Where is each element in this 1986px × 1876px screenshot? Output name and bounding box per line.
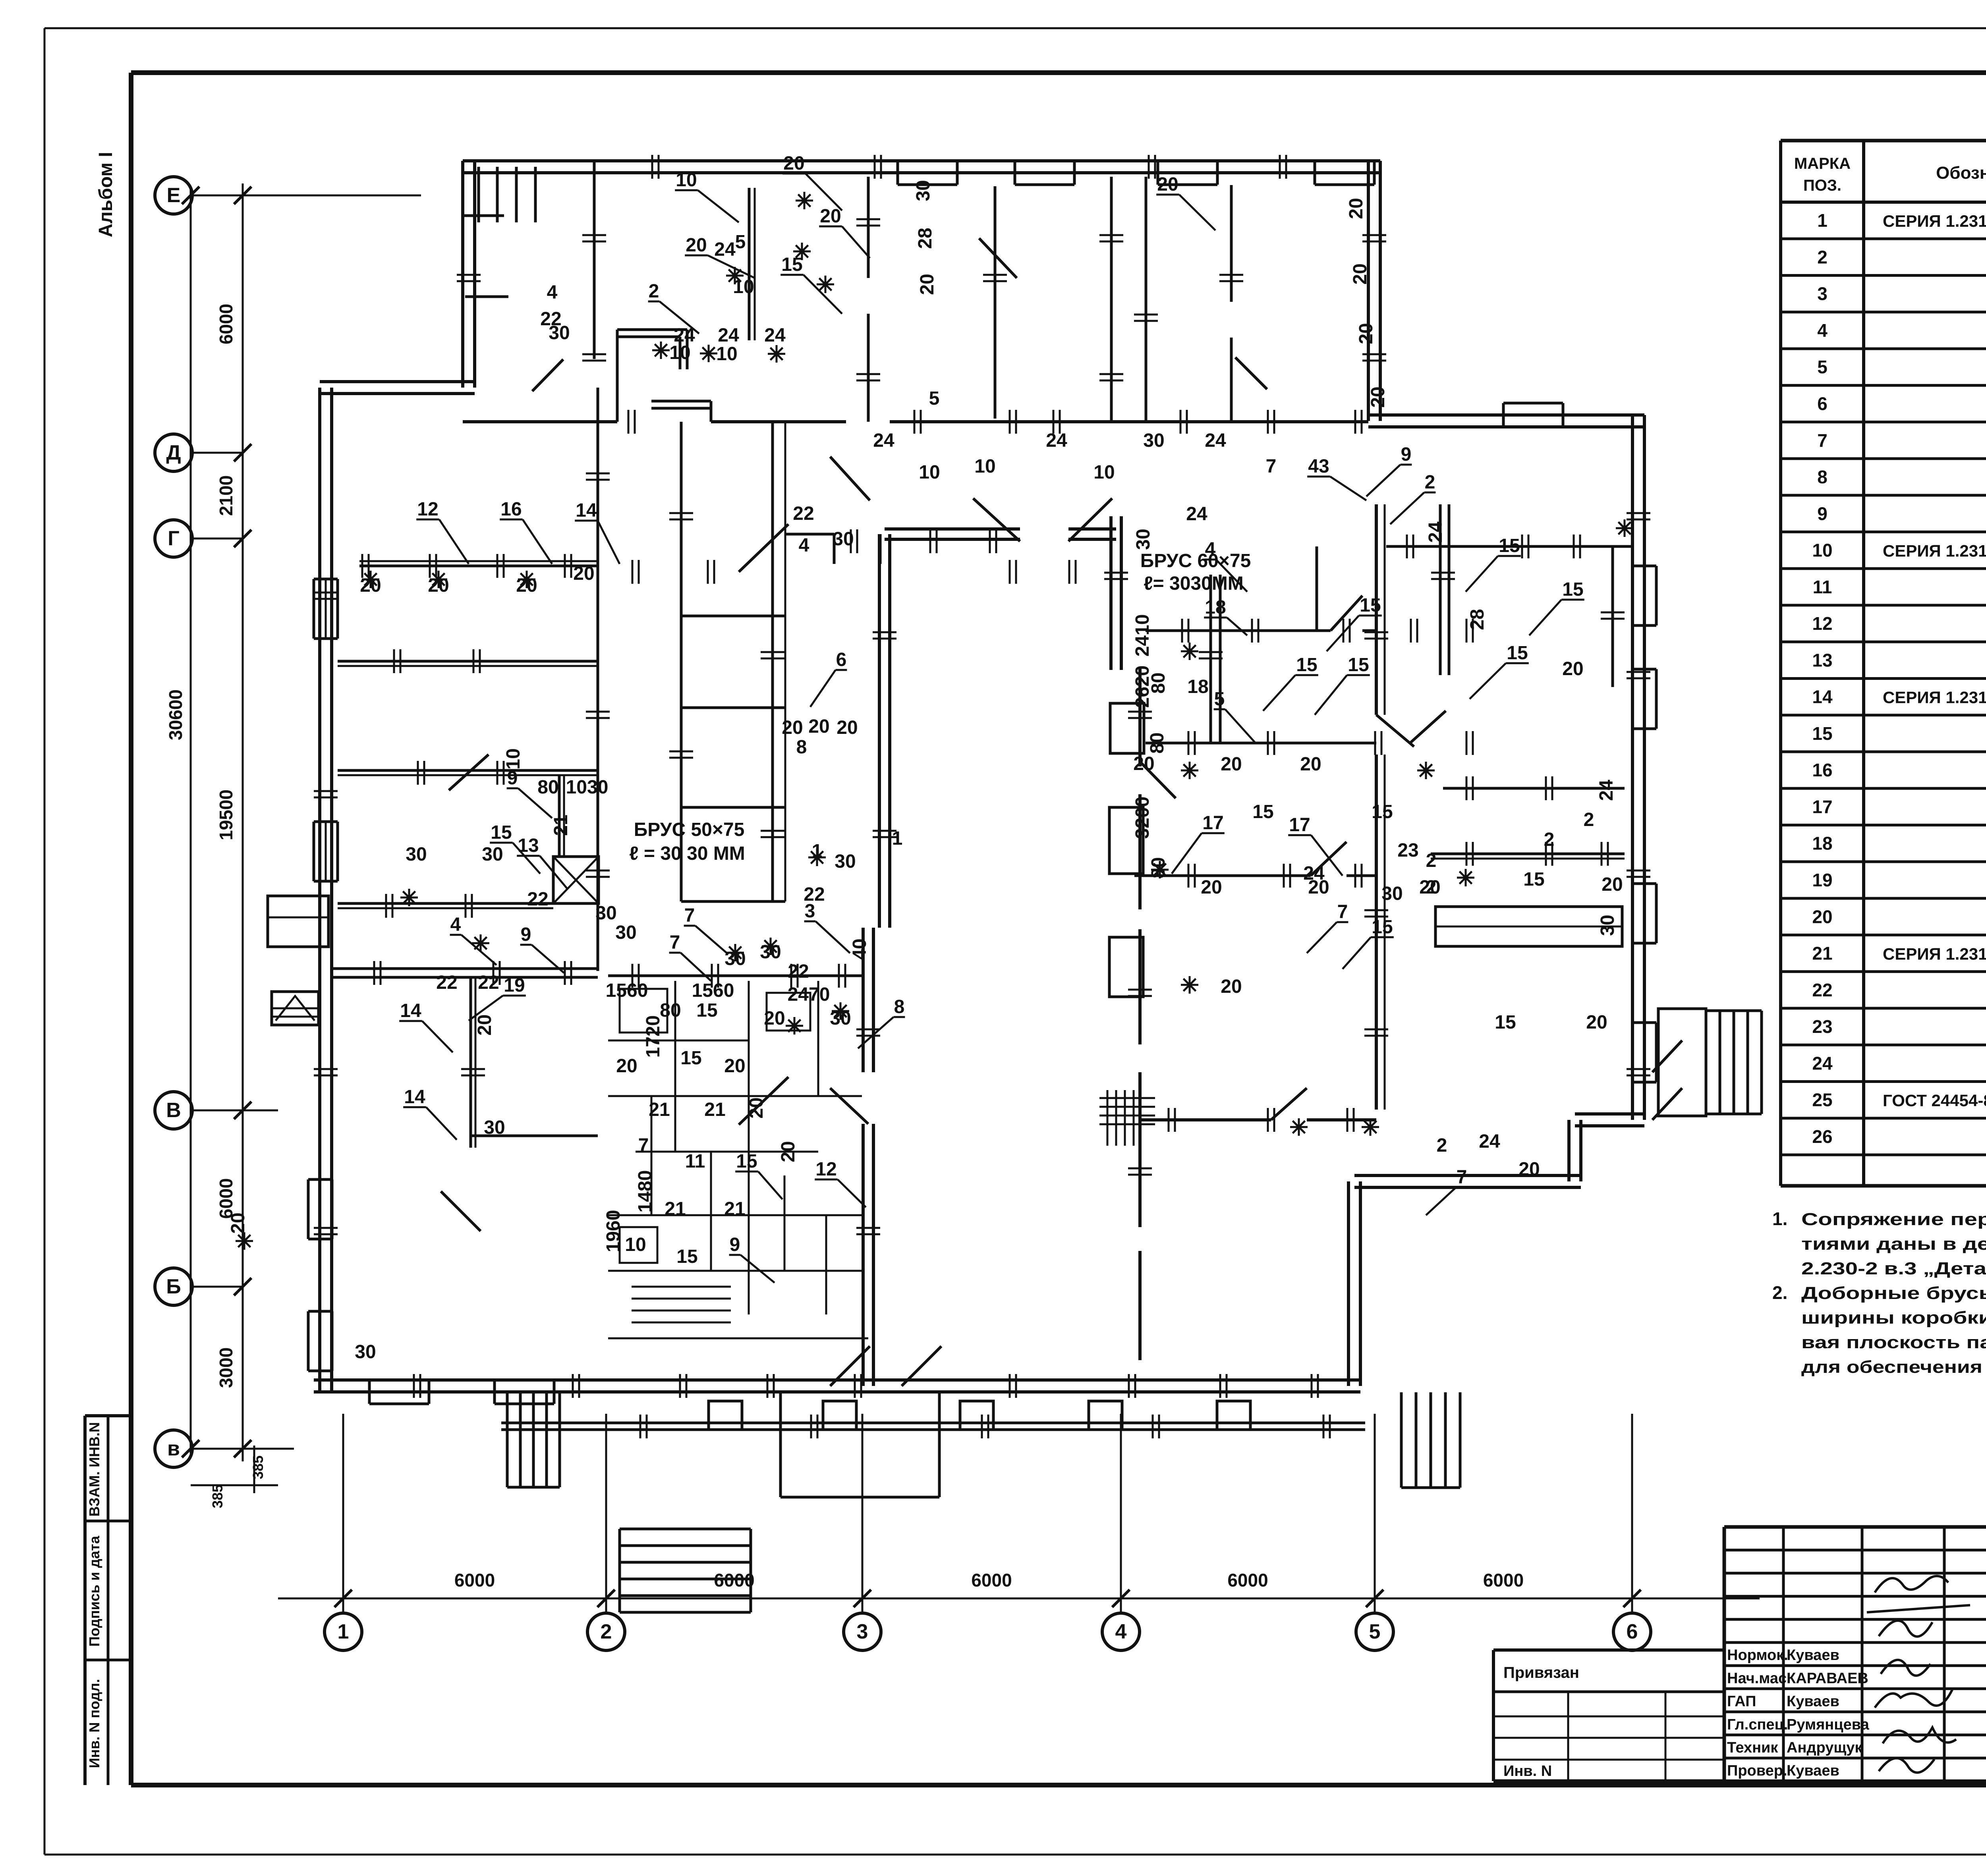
svg-text:5: 5 <box>735 232 746 253</box>
svg-text:Инв. N подл.: Инв. N подл. <box>86 1679 102 1768</box>
svg-text:Б: Б <box>166 1275 181 1298</box>
svg-text:8: 8 <box>1817 467 1828 487</box>
inner frame <box>131 70 1986 75</box>
svg-text:ℓ= 3030ММ: ℓ= 3030ММ <box>1144 573 1244 594</box>
svg-text:14: 14 <box>576 500 597 521</box>
svg-text:2470: 2470 <box>788 984 830 1005</box>
svg-text:9: 9 <box>507 768 518 789</box>
svg-text:СЕРИЯ 1.231.9-7В.2 Ч.1,2: СЕРИЯ 1.231.9-7В.2 Ч.1,2 <box>1883 212 1986 230</box>
svg-text:10: 10 <box>1812 540 1832 561</box>
parts table grid <box>1781 139 1986 143</box>
svg-text:30: 30 <box>1381 883 1403 904</box>
south-east step wall <box>1354 1174 1581 1177</box>
svg-text:9: 9 <box>1401 444 1412 465</box>
svg-text:3: 3 <box>857 1620 868 1643</box>
svg-text:12: 12 <box>417 499 438 520</box>
svg-text:18: 18 <box>1205 597 1226 618</box>
svg-text:Сопряжение перегородок между с: Сопряжение перегородок между собой , со … <box>1801 1210 1986 1229</box>
west wing north wall <box>320 380 475 383</box>
svg-text:Гл.спец.: Гл.спец. <box>1727 1716 1788 1733</box>
svg-text:20: 20 <box>1518 1159 1540 1180</box>
west partition y1940 <box>338 769 449 772</box>
vertical dimension lines <box>242 183 244 1461</box>
hall west wall <box>878 534 881 928</box>
asterisk marks <box>726 275 744 277</box>
west exterior wall <box>318 388 321 1392</box>
svg-text:10: 10 <box>919 462 940 483</box>
svg-text:6000: 6000 <box>216 304 236 344</box>
hall east duct boxes <box>1110 703 1144 753</box>
svg-text:20: 20 <box>1201 877 1222 898</box>
svg-text:1560: 1560 <box>692 980 734 1001</box>
svg-text:28: 28 <box>1467 609 1488 630</box>
svg-text:8: 8 <box>894 996 905 1017</box>
svg-text:20: 20 <box>778 1141 799 1162</box>
svg-text:17: 17 <box>1289 814 1310 836</box>
svg-text:Инв. N: Инв. N <box>1503 1763 1552 1779</box>
joint ticks vertical <box>856 218 880 220</box>
title block left <box>1493 1648 1724 1652</box>
svg-text:2.: 2. <box>1772 1282 1787 1303</box>
center column rooms <box>680 422 683 901</box>
svg-text:6000: 6000 <box>1227 1570 1268 1590</box>
svg-text:10: 10 <box>503 748 524 769</box>
svg-text:10: 10 <box>733 276 754 297</box>
svg-text:25: 25 <box>1812 1090 1832 1110</box>
svg-text:21: 21 <box>724 1199 745 1220</box>
svg-text:15: 15 <box>781 254 802 275</box>
svg-text:10: 10 <box>625 1234 646 1255</box>
svg-text:15: 15 <box>1252 801 1273 822</box>
svg-text:3200: 3200 <box>1132 797 1153 839</box>
svg-text:Привязан: Привязан <box>1503 1664 1579 1681</box>
north-east step wall <box>1368 413 1644 417</box>
svg-text:7: 7 <box>1337 901 1348 923</box>
svg-text:5: 5 <box>1369 1620 1381 1643</box>
svg-text:20: 20 <box>228 1212 249 1233</box>
svg-text:4: 4 <box>450 914 461 935</box>
svg-text:12: 12 <box>1812 613 1832 634</box>
door swing strokes <box>739 524 788 572</box>
east block east wall <box>1375 504 1378 715</box>
svg-text:БРУС 50×75: БРУС 50×75 <box>634 819 745 840</box>
svg-text:3: 3 <box>1817 284 1828 304</box>
svg-text:СЕРИЯ 1.231.9-7 В.4: СЕРИЯ 1.231.9-7 В.4 <box>1883 945 1986 963</box>
svg-text:МАРКА: МАРКА <box>1794 155 1851 172</box>
svg-text:24: 24 <box>1303 863 1325 884</box>
svg-text:Нач.мас.: Нач.мас. <box>1727 1670 1791 1687</box>
svg-text:15: 15 <box>696 1000 717 1021</box>
west partition y1425 (12 16 14) <box>359 565 598 567</box>
svg-text:17: 17 <box>1202 813 1223 834</box>
svg-text:7: 7 <box>684 905 695 926</box>
svg-text:30: 30 <box>830 1008 851 1029</box>
svg-text:30: 30 <box>355 1341 376 1363</box>
svg-text:26: 26 <box>1812 1126 1832 1147</box>
svg-text:20: 20 <box>616 1056 637 1077</box>
partition x2798 <box>1110 177 1113 422</box>
svg-text:6: 6 <box>836 649 847 670</box>
svg-text:22: 22 <box>1812 980 1832 1000</box>
north-east step window <box>1503 402 1563 405</box>
svg-text:20: 20 <box>746 1097 767 1118</box>
hall door bay <box>784 533 834 536</box>
svg-text:20: 20 <box>1368 386 1389 407</box>
svg-text:20: 20 <box>428 575 449 596</box>
partition x3633 <box>1439 504 1442 675</box>
svg-text:23: 23 <box>1397 840 1418 861</box>
svg-text:Куваев: Куваев <box>1787 1693 1839 1710</box>
west partition y2275 <box>338 902 553 905</box>
svg-text:20: 20 <box>1356 323 1377 344</box>
brus60 wall <box>1209 575 1212 743</box>
svg-text:24: 24 <box>764 325 786 346</box>
svg-text:20: 20 <box>573 563 594 584</box>
svg-text:20: 20 <box>1812 906 1832 927</box>
svg-text:ширины коробки двери ширине пр: ширины коробки двери ширине проема . В э… <box>1801 1308 1986 1328</box>
svg-text:20: 20 <box>1350 263 1371 284</box>
left stamp strip <box>83 1416 87 1785</box>
svg-text:10: 10 <box>1093 462 1115 483</box>
svg-text:в: в <box>167 1437 180 1460</box>
joint ticks horizontal <box>361 554 363 578</box>
svg-text:6000: 6000 <box>1483 1570 1524 1590</box>
fareast wall y2150 <box>1431 853 1625 855</box>
svg-text:Доборные брусья (поз. 25,26) с: Доборные брусья (поз. 25,26) ставятся в … <box>1801 1283 1986 1303</box>
svg-text:11: 11 <box>685 1151 705 1172</box>
svg-text:5: 5 <box>1214 689 1225 710</box>
svg-text:24: 24 <box>1479 1131 1500 1152</box>
svg-text:20: 20 <box>1157 174 1178 195</box>
svg-text:17: 17 <box>1812 796 1832 817</box>
south-east porch stairs <box>1658 1009 1706 1116</box>
south windows <box>369 1379 429 1382</box>
svg-text:30: 30 <box>760 942 781 963</box>
svg-text:1030: 1030 <box>566 777 609 798</box>
svg-text:20: 20 <box>783 153 804 174</box>
fareast top wall <box>1386 545 1632 548</box>
svg-text:20: 20 <box>1300 754 1321 775</box>
svg-text:4: 4 <box>547 282 558 303</box>
svg-text:ПОЗ.: ПОЗ. <box>1803 177 1841 194</box>
svg-text:6000: 6000 <box>971 1570 1012 1590</box>
svg-text:30: 30 <box>484 1117 505 1138</box>
svg-text:Подпись и дата: Подпись и дата <box>86 1536 102 1647</box>
sw partition x1185 <box>469 977 472 1148</box>
svg-text:вая плоскость панели выравнива: вая плоскость панели выравнивается цемен… <box>1801 1333 1986 1352</box>
east exterior wall <box>1631 415 1634 1120</box>
svg-text:23: 23 <box>1812 1016 1832 1037</box>
svg-text:22: 22 <box>788 961 809 982</box>
svg-text:Обозначение: Обозначение <box>1936 163 1986 183</box>
svg-text:21: 21 <box>551 814 572 836</box>
svg-text:15: 15 <box>1495 1012 1516 1033</box>
svg-text:14: 14 <box>1812 687 1833 707</box>
svg-text:16: 16 <box>500 499 522 520</box>
west windows <box>313 579 315 639</box>
svg-text:24: 24 <box>718 325 739 346</box>
svg-text:24: 24 <box>714 239 736 260</box>
svg-text:10: 10 <box>716 344 737 365</box>
svg-text:6000: 6000 <box>454 1570 495 1590</box>
svg-text:14: 14 <box>400 1000 421 1021</box>
south wall <box>314 1378 1360 1382</box>
partition x1413 <box>558 775 561 857</box>
sheet outer border <box>44 27 1986 29</box>
svg-text:15: 15 <box>1812 723 1832 744</box>
hall north wall <box>885 527 1020 531</box>
svg-text:18: 18 <box>1812 833 1832 854</box>
svg-text:10: 10 <box>669 342 690 363</box>
hall east wall with openings <box>1138 668 1142 766</box>
svg-text:8: 8 <box>796 737 807 758</box>
svg-text:22: 22 <box>804 884 825 905</box>
svg-text:15: 15 <box>1562 579 1583 600</box>
svg-text:2: 2 <box>601 1620 612 1643</box>
svg-text:БРУС 60×75: БРУС 60×75 <box>1140 550 1251 571</box>
svg-text:30: 30 <box>724 948 746 969</box>
svg-text:20: 20 <box>820 206 841 227</box>
sw partition y2860 <box>471 1135 598 1137</box>
svg-text:5: 5 <box>1817 357 1828 377</box>
svg-text:СЕРИЯ 1.231.9-7В.2 Ч.1,2: СЕРИЯ 1.231.9-7В.2 Ч.1,2 <box>1883 688 1986 707</box>
svg-text:ГАП: ГАП <box>1727 1693 1756 1710</box>
svg-text:2: 2 <box>1426 877 1437 898</box>
east rooms wall y2205 <box>1134 874 1311 877</box>
svg-text:1: 1 <box>1817 210 1828 231</box>
svg-text:24: 24 <box>1205 430 1226 451</box>
svg-text:10: 10 <box>676 170 697 191</box>
svg-text:Е: Е <box>167 184 181 207</box>
svg-text:24: 24 <box>1425 521 1446 543</box>
svg-text:2: 2 <box>1426 850 1437 871</box>
north stair flight <box>477 167 480 222</box>
svg-text:12: 12 <box>815 1159 837 1180</box>
west partition y1665 <box>338 660 598 663</box>
svg-text:20: 20 <box>764 1008 785 1029</box>
svg-text:30: 30 <box>1597 915 1618 936</box>
svg-text:11: 11 <box>1813 577 1832 597</box>
svg-text:Куваев: Куваев <box>1787 1762 1839 1779</box>
svg-text:7: 7 <box>1817 430 1828 451</box>
svg-text:30: 30 <box>615 922 636 943</box>
svg-text:20: 20 <box>1602 874 1623 895</box>
svg-text:15: 15 <box>1499 535 1520 556</box>
personnel table <box>1723 1527 1726 1781</box>
svg-text:18: 18 <box>1187 676 1208 697</box>
svg-text:10: 10 <box>974 456 995 477</box>
svg-text:1.: 1. <box>1772 1208 1787 1229</box>
svg-text:2100: 2100 <box>216 475 236 516</box>
west wing east wall <box>597 388 599 971</box>
svg-text:Техник: Техник <box>1727 1739 1778 1756</box>
svg-text:20: 20 <box>782 717 803 738</box>
terrace west stair <box>506 1392 509 1487</box>
svg-text:2.230-2 в.3 „Детали стен и пер: 2.230-2 в.3 „Детали стен и перегородок о… <box>1801 1259 1986 1278</box>
svg-text:4: 4 <box>799 535 809 556</box>
svg-text:Провер.: Провер. <box>1727 1762 1787 1779</box>
partition x2885 <box>1145 177 1148 422</box>
svg-text:4: 4 <box>1115 1620 1127 1643</box>
svg-text:22: 22 <box>436 972 457 993</box>
svg-text:5: 5 <box>929 388 940 409</box>
west entry stair <box>272 992 319 1025</box>
east windows <box>1631 566 1634 625</box>
svg-text:24: 24 <box>873 430 894 451</box>
svg-text:КАРАВАЕВ: КАРАВАЕВ <box>1787 1670 1868 1687</box>
svg-text:24: 24 <box>1596 780 1617 801</box>
svg-text:80: 80 <box>1147 732 1168 753</box>
svg-text:СЕРИЯ 1.231.9-7В.4: СЕРИЯ 1.231.9-7В.4 <box>1883 542 1986 560</box>
svg-text:21: 21 <box>649 1099 670 1120</box>
svg-text:9: 9 <box>730 1234 740 1255</box>
partition x1886 <box>748 188 751 340</box>
svg-text:Румянцева: Румянцева <box>1787 1716 1870 1733</box>
svg-text:15: 15 <box>680 1048 701 1069</box>
svg-text:13: 13 <box>518 835 539 856</box>
svg-text:для обеспечения плотного примы: для обеспечения плотного примыкания добо… <box>1801 1357 1986 1377</box>
svg-text:20: 20 <box>1221 754 1242 775</box>
svg-text:20: 20 <box>837 717 858 738</box>
svg-text:19: 19 <box>504 975 525 996</box>
svg-text:Куваев: Куваев <box>1787 1647 1839 1664</box>
svg-text:30: 30 <box>1143 430 1164 451</box>
svg-text:6: 6 <box>1627 1620 1638 1643</box>
porch walls <box>779 1392 782 1497</box>
svg-text:1: 1 <box>812 841 823 862</box>
east rooms bottom y2820 <box>1140 1118 1271 1121</box>
svg-text:22: 22 <box>793 503 814 524</box>
east wing south jog <box>1567 1120 1571 1181</box>
north wing south wall <box>463 420 617 423</box>
svg-text:43: 43 <box>1308 456 1329 477</box>
svg-text:30: 30 <box>549 322 570 344</box>
svg-text:1720: 1720 <box>643 1015 664 1058</box>
svg-text:15: 15 <box>1372 917 1393 938</box>
north-west wall <box>461 161 464 388</box>
svg-text:2: 2 <box>1817 247 1828 267</box>
svg-text:24: 24 <box>1812 1053 1833 1073</box>
svg-text:385: 385 <box>209 1484 226 1508</box>
svg-text:Андрущук: Андрущук <box>1787 1739 1863 1756</box>
svg-text:30: 30 <box>1133 529 1154 550</box>
svg-text:3000: 3000 <box>216 1347 236 1388</box>
svg-text:30: 30 <box>913 180 934 201</box>
svg-text:тиями даны в деталях перегород: тиями даны в деталях перегородок , разра… <box>1801 1234 1986 1254</box>
svg-text:22: 22 <box>478 972 499 993</box>
svg-text:6: 6 <box>1817 393 1828 414</box>
svg-text:19500: 19500 <box>216 789 236 840</box>
svg-text:15: 15 <box>1360 595 1381 616</box>
svg-text:14: 14 <box>404 1087 425 1108</box>
svg-text:20: 20 <box>1562 658 1583 679</box>
svg-text:15: 15 <box>1296 654 1317 676</box>
svg-text:В: В <box>166 1099 181 1122</box>
svg-text:7: 7 <box>1457 1167 1467 1188</box>
svg-text:24: 24 <box>1046 430 1067 451</box>
svg-text:9: 9 <box>1817 503 1828 524</box>
svg-text:Г: Г <box>168 527 179 550</box>
svg-text:Альбом I: Альбом I <box>95 152 116 237</box>
east rooms wall y1871 <box>1146 742 1376 745</box>
svg-text:ВЗАМ. ИНВ.N: ВЗАМ. ИНВ.N <box>86 1422 102 1517</box>
svg-text:1960: 1960 <box>603 1210 624 1253</box>
svg-text:24: 24 <box>1186 504 1207 525</box>
svg-text:Нормок.: Нормок. <box>1727 1647 1788 1664</box>
svg-text:21: 21 <box>1812 943 1832 964</box>
svg-text:30: 30 <box>482 844 503 865</box>
brus crossed box <box>553 857 599 903</box>
svg-text:Д: Д <box>166 441 181 464</box>
hatch square symbol <box>1107 1090 1109 1146</box>
svg-text:30: 30 <box>595 903 616 924</box>
north wing top wall <box>463 159 1380 162</box>
svg-text:20: 20 <box>686 235 707 256</box>
svg-text:385: 385 <box>250 1455 266 1479</box>
north windows <box>898 160 957 162</box>
svg-text:2: 2 <box>1425 472 1435 493</box>
svg-text:7: 7 <box>670 932 680 953</box>
south-east jog wall <box>1347 1181 1350 1386</box>
svg-text:80: 80 <box>1148 857 1169 878</box>
svg-text:30: 30 <box>406 844 427 865</box>
svg-text:20: 20 <box>474 1014 495 1035</box>
svg-text:20: 20 <box>808 716 829 737</box>
svg-text:13: 13 <box>1812 650 1832 670</box>
svg-text:20: 20 <box>1586 1012 1607 1033</box>
central south stair <box>620 1528 751 1531</box>
svg-text:15: 15 <box>491 822 512 843</box>
svg-text:20: 20 <box>1221 976 1242 997</box>
hall north-east wall <box>1109 516 1113 670</box>
svg-text:15: 15 <box>676 1246 697 1267</box>
svg-text:7: 7 <box>638 1135 649 1156</box>
svg-text:1: 1 <box>892 828 903 849</box>
bench rectangle <box>1435 907 1622 946</box>
svg-text:2: 2 <box>1544 829 1555 850</box>
svg-text:20: 20 <box>360 575 381 596</box>
signatures <box>1867 1576 1970 1773</box>
svg-text:30600: 30600 <box>165 689 186 740</box>
east wing south wall <box>1575 1112 1644 1116</box>
svg-text:4: 4 <box>1817 320 1828 341</box>
row axis circles E D G V B v <box>155 177 192 214</box>
svg-text:15: 15 <box>736 1151 757 1172</box>
svg-text:20: 20 <box>917 274 938 295</box>
east rooms top wall 48 <box>1146 629 1331 632</box>
svg-text:7: 7 <box>1266 456 1277 477</box>
svg-text:80: 80 <box>1148 672 1169 693</box>
stair room wall <box>593 162 596 359</box>
svg-text:1: 1 <box>338 1620 349 1643</box>
fareast wall y1985 <box>1443 787 1625 790</box>
svg-text:20: 20 <box>724 1056 745 1077</box>
svg-text:21: 21 <box>665 1199 686 1220</box>
svg-text:9: 9 <box>521 924 531 945</box>
svg-text:20: 20 <box>1346 198 1367 219</box>
partition x3100 <box>1230 185 1233 302</box>
partition x3315 upper <box>1316 546 1318 631</box>
svg-text:30: 30 <box>833 529 854 550</box>
svg-text:20: 20 <box>1133 753 1154 774</box>
fareast partition x4060 <box>1611 546 1614 687</box>
svg-text:2: 2 <box>1584 809 1594 830</box>
terrace edge <box>501 1422 1365 1424</box>
svg-text:1560: 1560 <box>606 980 648 1001</box>
north entry lobby <box>617 328 687 331</box>
svg-text:2: 2 <box>649 281 659 302</box>
kitchen cluster partitions <box>608 975 862 977</box>
